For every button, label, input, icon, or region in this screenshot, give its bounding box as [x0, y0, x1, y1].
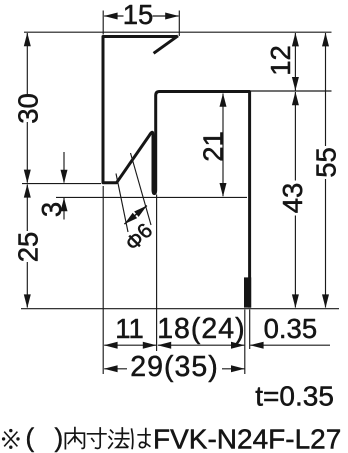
- svg-text:55: 55: [311, 147, 342, 178]
- svg-text:12: 12: [265, 45, 296, 76]
- extension line x=156.6 below fold: [156, 195, 158, 352]
- svg-text:15: 15: [123, 0, 154, 30]
- dimension 29(35) line: [104, 368, 244, 370]
- extension line x=103.2 above top: [102, 11, 104, 35]
- extension line y=197.4 middle: [56, 196, 247, 198]
- dimension 43 line: [294, 92, 296, 308]
- extension line x=179.3 top right: [178, 11, 180, 37]
- note: kanji sun (measure): [88, 428, 106, 448]
- extension line y=91 right: [251, 90, 332, 92]
- profile: left wall + top flange + foot + hook flange + return lip: [103, 37, 178, 191]
- note: kanji nai (inside): [65, 428, 84, 449]
- svg-text:25: 25: [12, 232, 43, 263]
- extension line x=249.7 below wall: [249, 310, 251, 350]
- dimension 0.35 arrow line: [250, 344, 330, 346]
- svg-text:(: (: [26, 423, 35, 453]
- svg-text:18(24): 18(24): [157, 313, 245, 345]
- note: reference mark kome: [2, 429, 20, 449]
- svg-text:FVK-N24F-L27: FVK-N24F-L27: [153, 423, 341, 453]
- profile: top bent lip: [154, 36, 178, 54]
- svg-text:21: 21: [198, 131, 229, 162]
- profile: hem thickening at bottom of right wall: [244, 277, 251, 307]
- extension line y=183.6 left: [22, 183, 101, 185]
- svg-text:29(35): 29(35): [130, 351, 218, 383]
- dimension 21 line: [222, 94, 224, 197]
- svg-text:43: 43: [277, 183, 308, 214]
- dimension 12 line: [294, 33, 296, 91]
- profile: bottom fold + box wall + box top + right wall: [153, 92, 250, 308]
- dimension phi6 leader line left: [116, 174, 128, 233]
- dimension 3 arrows: [63, 152, 65, 220]
- dimension 15 line: [104, 15, 178, 17]
- extension line x=244.8 below wall: [244, 310, 246, 375]
- dimension phi6 leader line right: [131, 153, 152, 225]
- dimension phi6 arrow: [124, 206, 146, 225]
- dimension 25 line: [26, 185, 28, 308]
- extension line bottom y=308.4: [21, 308, 339, 310]
- note: hiragana ha: [132, 429, 150, 449]
- svg-text:t=0.35: t=0.35: [255, 381, 334, 412]
- dimension 55 line: [325, 33, 327, 308]
- dimension 30 line: [26, 33, 28, 183]
- svg-text:0.35: 0.35: [264, 313, 318, 344]
- extension line x=103.2 below: [102, 186, 104, 374]
- extension line top y=32.2: [24, 31, 332, 33]
- svg-text:3: 3: [36, 202, 67, 217]
- svg-text:11: 11: [115, 313, 144, 344]
- note: kanji hou (method): [109, 428, 129, 448]
- svg-text:): ): [55, 423, 64, 453]
- dimension 18(24) line: [158, 344, 245, 346]
- svg-text:30: 30: [12, 93, 43, 124]
- dimension 11 line: [104, 344, 156, 346]
